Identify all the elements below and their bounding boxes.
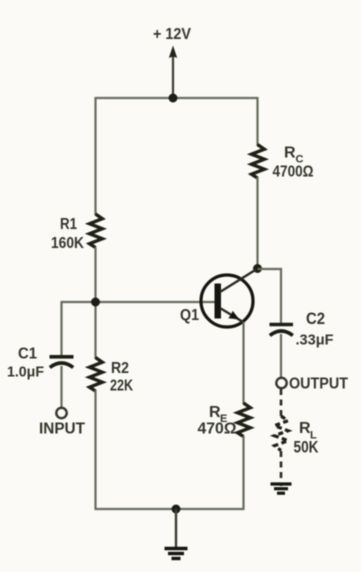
wire C1 branch corner down — [60, 301, 62, 355]
label C2 value — [296, 310, 334, 349]
svg-text:C2: C2 — [306, 310, 325, 328]
transistor Q1 — [201, 270, 256, 328]
wire dashed output to RL — [280, 389, 283, 417]
label R2 value — [110, 360, 133, 395]
ground load — [271, 484, 292, 493]
svg-text:Q1: Q1 — [180, 307, 199, 324]
svg-text:+ 12V: + 12V — [153, 26, 191, 43]
wire bottom rail — [95, 508, 245, 510]
capacitor C1 — [50, 357, 74, 368]
svg-text:470Ω: 470Ω — [198, 421, 237, 438]
label RL value — [294, 420, 319, 457]
wire dashed RL to ground — [280, 451, 283, 486]
ground main — [165, 549, 188, 559]
resistor RL dashed — [275, 416, 289, 451]
wire C1 to input terminal — [60, 366, 62, 408]
capacitor C2 — [270, 325, 294, 336]
svg-text:22K: 22K — [110, 378, 133, 395]
power supply arrow — [169, 46, 177, 98]
wire emitter down to RE — [242, 322, 244, 404]
label RE value — [198, 404, 237, 438]
node base junction dot — [91, 298, 100, 307]
wire left branch upper (top rail to R1) — [94, 97, 96, 215]
svg-text:R: R — [284, 145, 296, 162]
wire left branch middle (R1 to R2) — [94, 247, 96, 359]
output terminal — [276, 378, 286, 388]
node top junction dot — [169, 94, 178, 103]
svg-text:C1: C1 — [18, 346, 37, 363]
resistor R2 — [90, 358, 103, 392]
svg-text:R2: R2 — [111, 360, 129, 377]
svg-text:4700Ω: 4700Ω — [273, 164, 314, 181]
svg-text:INPUT: INPUT — [39, 421, 85, 438]
wire right branch upper (top rail to RC) — [256, 97, 258, 146]
svg-text:160K: 160K — [51, 235, 84, 252]
svg-text:1.0μF: 1.0μF — [7, 364, 44, 381]
wire collector node to C2 branch — [258, 269, 282, 324]
resistor RE — [238, 403, 251, 437]
input terminal — [56, 408, 66, 418]
label R1 value — [51, 216, 84, 252]
wire C2 to output terminal — [280, 334, 282, 378]
wire base wire horizontal — [62, 301, 216, 303]
node bottom junction dot — [172, 505, 181, 514]
wire ground stub — [175, 509, 177, 549]
resistor R1 — [90, 214, 103, 248]
wire RE to bottom rail — [242, 436, 244, 510]
svg-text:R1: R1 — [60, 216, 77, 233]
label C1 value — [7, 346, 44, 381]
svg-text:.33μF: .33μF — [296, 332, 334, 349]
wire right branch lower (RC to collector node) — [256, 177, 258, 269]
label RC value — [273, 145, 314, 181]
wire top rail — [96, 97, 258, 99]
resistor RC — [252, 145, 265, 179]
svg-text:50K: 50K — [294, 439, 319, 457]
wire left branch lower (R2 to bottom rail) — [94, 390, 96, 510]
svg-text:OUTPUT: OUTPUT — [289, 376, 348, 393]
node collector junction dot — [253, 264, 262, 273]
